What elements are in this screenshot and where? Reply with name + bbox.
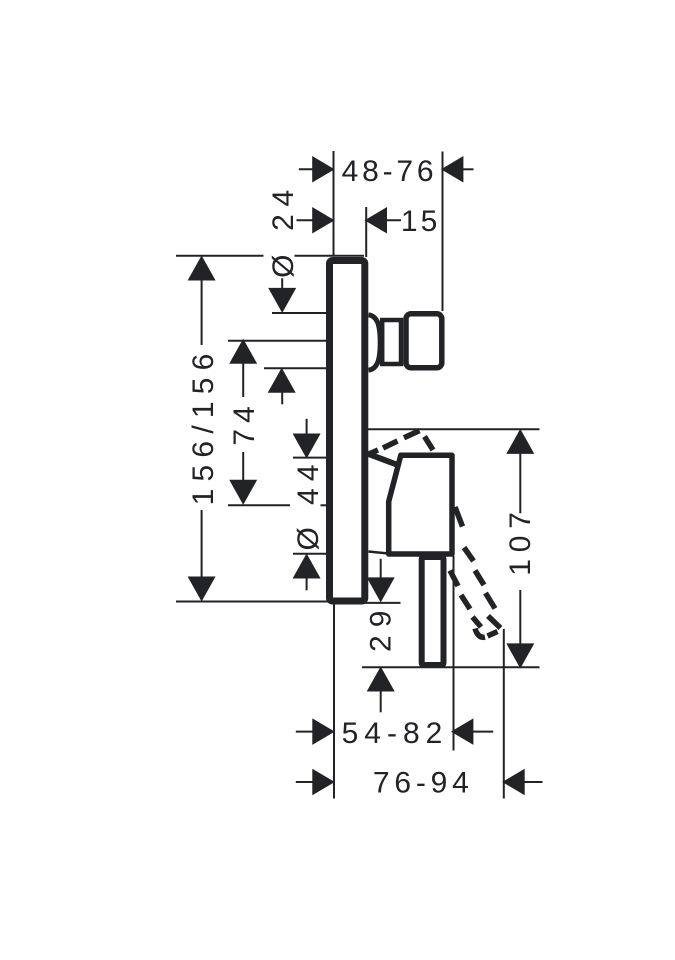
wire: horizontal ref 156-bottom — [176, 601, 332, 603]
knob head — [406, 314, 442, 368]
wire: horizontal ref lever top (d44 top) — [293, 457, 327, 459]
dimension 54-82 left arrow — [296, 731, 313, 733]
wire: horizontal ref 29-top — [363, 602, 401, 604]
wire: horizontal ref 156-top (left of diameter glyph) — [176, 255, 264, 257]
escutcheon plate (side view) — [330, 261, 365, 602]
wire: horizontal ref knob top — [272, 312, 327, 314]
lever body — [389, 455, 452, 554]
svg-text:Ø 44: Ø 44 — [292, 457, 325, 550]
dimension 76-94 right arrow — [523, 781, 543, 783]
svg-text:74: 74 — [228, 400, 261, 445]
lever upper arm — [365, 453, 397, 465]
dimension 29 lower arrow — [380, 686, 382, 712]
svg-text:156/156: 156/156 — [187, 346, 220, 505]
dimension d24 lower arrow — [281, 388, 283, 404]
wire: horizontal ref knob centre (74 top) — [228, 340, 327, 342]
dimension 29 upper arrow — [380, 559, 382, 583]
dimension d24 upper arrow — [281, 278, 283, 294]
svg-text:107: 107 — [504, 505, 537, 575]
svg-text:15: 15 — [401, 205, 440, 238]
dimension 76-94 left arrow — [296, 781, 313, 783]
wire: horizontal ref 107-top — [368, 428, 540, 430]
wire: extension line D (lever right) — [453, 556, 455, 751]
dimension d44 lower arrow — [306, 573, 308, 590]
svg-text:48-76: 48-76 — [342, 155, 438, 188]
svg-text:76-94: 76-94 — [373, 767, 474, 800]
wire: horizontal ref 156-top (right of diameter glyph) — [295, 255, 365, 257]
svg-text:Ø 24: Ø 24 — [267, 182, 300, 278]
wire: extension line A bottom (below plate) — [333, 604, 335, 799]
dimension 48-76 right arrow — [460, 168, 474, 170]
wire: horizontal ref lever centre (74 bottom) right stub — [321, 504, 328, 506]
svg-text:29: 29 — [365, 603, 398, 652]
lever lower joint line — [369, 552, 389, 554]
dimension 15 right arrow (points left at plate face) — [384, 219, 401, 221]
wire: extension line C (plate front face) — [365, 207, 367, 257]
dashed lever rod in raised position — [367, 431, 434, 455]
wire: horizontal ref knob bottom — [264, 367, 327, 369]
wire: extension line B (knob front face) — [442, 152, 444, 312]
wire: extension line A (wall face) top — [333, 151, 335, 256]
dimension 156/156 line + arrows — [201, 279, 203, 345]
dimension 54-82 right arrow — [472, 731, 493, 733]
lever handle rod (vertical) — [422, 557, 444, 665]
wire: horizontal ref rod bottom (29/107 bottom) — [362, 666, 540, 668]
wire: extension line E (dashed-rod end) — [503, 629, 505, 799]
dimension 74 line + arrows — [242, 361, 244, 397]
wire: horizontal ref lever centre (74 bottom) left part — [228, 504, 290, 506]
wire: horizontal ref lever bottom (d44 bottom) — [293, 553, 327, 555]
knob stem — [382, 320, 401, 364]
dashed lever rod in lowered position — [450, 507, 501, 637]
dimension 48-76 left arrow — [299, 168, 315, 170]
knob cap arc between plate and stem — [369, 315, 381, 370]
dimension 107 line + arrows — [519, 450, 521, 513]
dimension d44 upper arrow — [306, 419, 308, 438]
svg-text:54-82: 54-82 — [342, 717, 449, 750]
dimension 15 left arrow (points right at wall face) — [297, 219, 316, 221]
